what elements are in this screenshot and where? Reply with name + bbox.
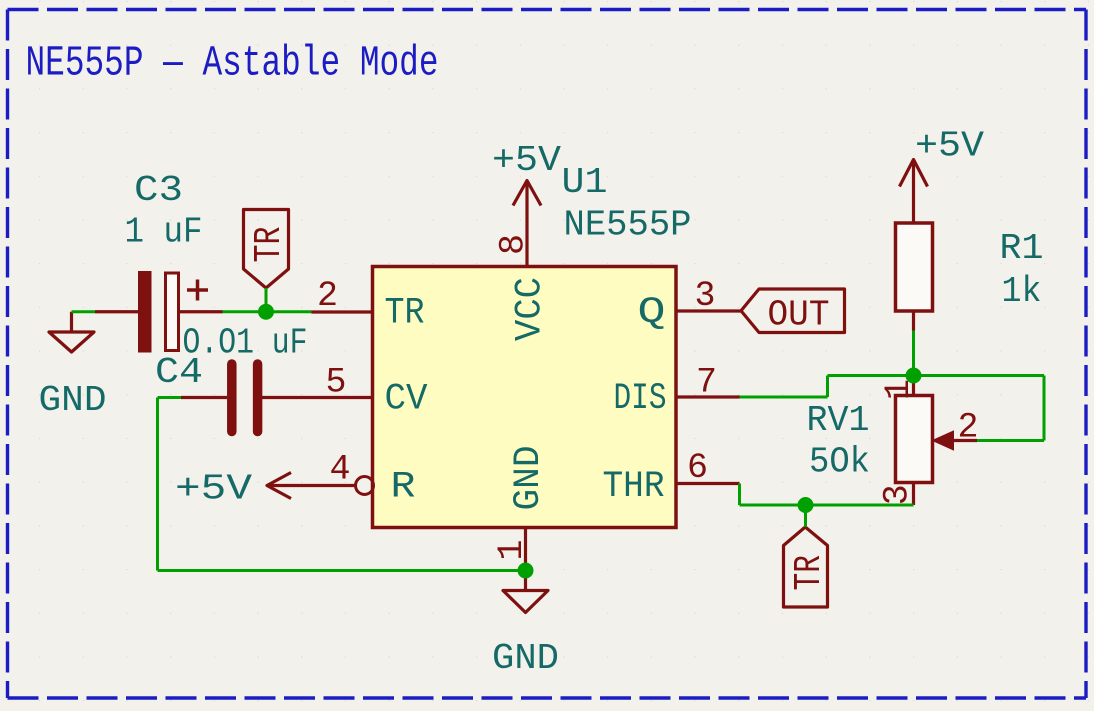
pin 3 (Q) line — [676, 309, 741, 312]
capacitor C4 left plate — [227, 364, 237, 432]
svg-text:GND: GND — [492, 638, 559, 679]
svg-text:3: 3 — [878, 484, 918, 505]
svg-text:2: 2 — [958, 408, 979, 448]
potentiometer RV1 body — [896, 396, 933, 483]
global label TR (top) — [244, 210, 289, 289]
wire R1 bottom to junction — [912, 331, 915, 376]
svg-text:2: 2 — [317, 276, 338, 316]
svg-text:5Ok: 5Ok — [809, 442, 870, 483]
svg-text:C3: C3 — [134, 170, 183, 211]
capacitor C3 left pin — [95, 310, 138, 313]
svg-text:6: 6 — [687, 448, 708, 488]
power symbol +5V (at reset pin 4), arrow pointing left — [267, 473, 291, 499]
svg-text:1: 1 — [492, 539, 532, 560]
junction at THR wire / TR flag — [798, 497, 814, 513]
svg-text:CV: CV — [385, 379, 428, 421]
pin 8 (VCC) line — [525, 224, 528, 267]
capacitor C4 right plate — [253, 364, 263, 432]
wire stub TR flag (bottom) — [804, 505, 807, 527]
pin 4 (R) line with inversion bubble — [267, 484, 356, 487]
svg-text:7: 7 — [696, 363, 717, 403]
junction at GND / pin 1 — [518, 563, 534, 579]
capacitor C4 right pin — [262, 396, 312, 399]
global label OUT — [741, 289, 845, 333]
wire THR down jog — [738, 484, 741, 506]
svg-text:4: 4 — [329, 450, 350, 490]
global label TR (bottom) — [784, 527, 828, 607]
op-amp/timer IC U1 NE555P body — [373, 267, 677, 528]
svg-text:TR: TR — [385, 293, 425, 335]
ground symbol GND (bottom, at pin 1) — [524, 571, 527, 591]
svg-text:DIS: DIS — [614, 378, 667, 420]
pin 5 (CV) line — [312, 396, 373, 399]
pin 7 (DIS) line — [676, 395, 740, 398]
svg-text:RV1: RV1 — [807, 400, 870, 441]
wire C3 to pin 2 — [223, 310, 312, 313]
wire DIS rightward — [740, 396, 828, 399]
wire stub TR flag (top) — [265, 288, 268, 312]
capacitor C3 polarity plus sign — [187, 288, 208, 292]
svg-text:+5V: +5V — [175, 469, 252, 510]
capacitor C3 left plate (filled) — [138, 271, 152, 353]
capacitor C3 right pin — [179, 310, 223, 313]
potentiometer RV1 wiper arrow (pin 2) — [954, 439, 978, 442]
svg-text:8: 8 — [494, 234, 534, 255]
capacitor C3 right plate (hollow) — [166, 273, 179, 351]
svg-text:TR: TR — [788, 555, 831, 591]
svg-text:+5V: +5V — [492, 140, 561, 181]
pin 2 (TR) line — [312, 310, 373, 313]
wire GND to C3 — [72, 310, 96, 313]
potentiometer RV1 pin 3 stub — [912, 483, 915, 506]
ground symbol GND (left, at C3) — [70, 312, 73, 332]
svg-text:NE555P: NE555P — [564, 205, 692, 246]
svg-text:U1: U1 — [562, 162, 608, 203]
svg-text:5: 5 — [325, 363, 346, 403]
svg-text:Q: Q — [638, 292, 666, 334]
wire right side down — [1043, 376, 1046, 441]
svg-text:1 uF: 1 uF — [125, 212, 203, 253]
wire C4 down left side — [156, 398, 159, 571]
svg-text:TR: TR — [248, 227, 291, 263]
svg-text:GND: GND — [39, 380, 107, 421]
svg-text:+5V: +5V — [915, 126, 984, 167]
power symbol +5V (above R1) — [912, 160, 915, 224]
wire THR to RV1 pin 3 — [740, 504, 914, 507]
svg-text:O.O1 uF: O.O1 uF — [183, 323, 308, 364]
pin 1 (GND) line — [524, 528, 527, 571]
svg-text:THR: THR — [603, 466, 665, 508]
junction at R1 / RV1 pin 1 — [906, 368, 922, 384]
junction at TR / pin 2 — [258, 304, 274, 320]
svg-text:R1: R1 — [1000, 228, 1044, 269]
power symbol +5V (VCC pin 8) — [525, 181, 528, 225]
wire C4 left stub — [158, 396, 182, 399]
potentiometer RV1 pin 1 stub — [912, 376, 915, 396]
resistor R1 body — [896, 223, 933, 311]
wire to RV1 pin1 junction and beyond — [828, 374, 1045, 377]
svg-text:VCC: VCC — [510, 277, 552, 341]
wire DIS up jog — [826, 376, 829, 398]
svg-text:3: 3 — [694, 276, 715, 316]
wire to RV1 wiper — [977, 439, 1044, 442]
svg-text:NE555P — Astable Mode: NE555P — Astable Mode — [26, 39, 439, 88]
resistor R1 bottom pin stub — [912, 311, 915, 331]
svg-text:GND: GND — [508, 446, 550, 511]
svg-text:1k: 1k — [1002, 271, 1042, 312]
svg-text:OUT: OUT — [768, 295, 830, 336]
wire bottom run to GND junction — [158, 569, 526, 572]
capacitor C4 left pin — [181, 396, 227, 399]
svg-text:R: R — [391, 467, 416, 509]
pin 6 (THR) line — [676, 482, 740, 485]
